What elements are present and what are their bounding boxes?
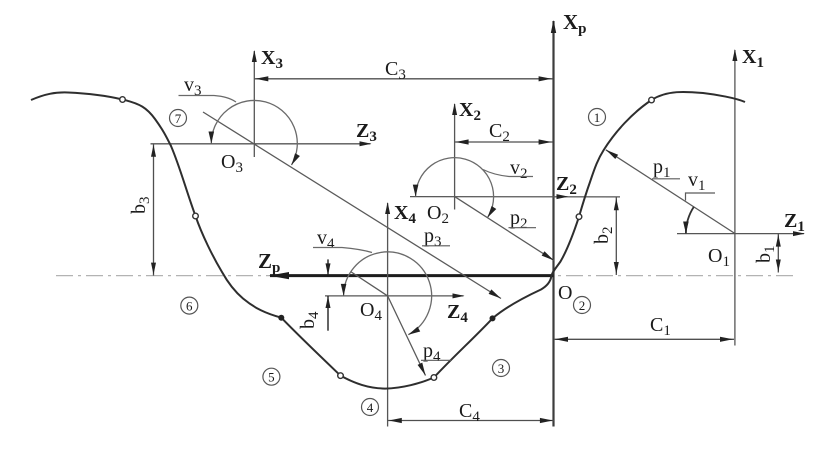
svg-text:6: 6: [186, 299, 193, 314]
segment number 6: [181, 297, 198, 314]
label v1 leader: [686, 169, 716, 201]
marker open point seg4-3: [431, 375, 437, 381]
svg-text:O4: O4: [360, 299, 382, 324]
label v4 leader: [313, 227, 372, 253]
label p2: [509, 207, 537, 232]
dimension b1: [776, 234, 781, 273]
svg-text:O3: O3: [221, 151, 243, 176]
axis Xp: [551, 20, 556, 427]
axis X1: [732, 49, 737, 346]
label p1: [652, 156, 680, 181]
segment number 2: [574, 297, 591, 314]
line p1: [604, 148, 735, 234]
svg-text:X2: X2: [459, 99, 481, 124]
marker open point seg2-1: [576, 214, 582, 220]
svg-text:C3: C3: [385, 58, 406, 83]
svg-text:v2: v2: [510, 157, 528, 182]
axis Z4: [325, 293, 465, 298]
dimension C1: [554, 337, 734, 342]
label p3: [422, 225, 450, 250]
svg-text:4: 4: [367, 400, 374, 415]
svg-text:O2: O2: [427, 202, 449, 227]
svg-text:Z1: Z1: [784, 210, 805, 235]
centerline Zp dash-dot: [56, 275, 797, 277]
segment number 7: [170, 110, 187, 127]
segment number 5: [263, 368, 280, 385]
marker filled point seg6-5: [278, 315, 284, 321]
marker open point seg7b: [193, 213, 199, 219]
dimension b4: [326, 259, 331, 330]
svg-text:b1: b1: [753, 246, 778, 264]
dimension C3: [254, 76, 552, 81]
axis X2: [452, 103, 457, 210]
label p4: [421, 340, 452, 365]
marker open point seg5-4: [338, 373, 344, 379]
line p4: [351, 272, 428, 377]
dimension b2: [614, 197, 619, 275]
line p2: [455, 197, 556, 263]
marker open point seg7: [120, 97, 126, 103]
axis Z3: [151, 141, 372, 146]
svg-text:X1: X1: [742, 46, 764, 71]
axis X3: [252, 50, 257, 157]
dimension b3: [151, 144, 156, 276]
svg-text:X3: X3: [261, 47, 283, 72]
profile curve: [31, 92, 745, 389]
svg-text:p4: p4: [423, 340, 441, 365]
segment number 3: [493, 360, 510, 377]
svg-text:5: 5: [268, 370, 275, 385]
svg-text:Zp: Zp: [258, 249, 280, 276]
svg-text:v4: v4: [317, 227, 335, 252]
svg-text:O1: O1: [708, 245, 730, 270]
svg-text:C2: C2: [489, 120, 510, 145]
svg-text:Z3: Z3: [356, 120, 377, 145]
axis Zp (thick): [269, 272, 554, 279]
dimension C2: [455, 139, 553, 144]
svg-text:C4: C4: [459, 400, 480, 425]
svg-text:X4: X4: [394, 202, 416, 227]
svg-text:v1: v1: [688, 169, 706, 194]
svg-text:b2: b2: [591, 227, 616, 245]
svg-text:b3: b3: [128, 197, 153, 215]
svg-text:C1: C1: [650, 314, 671, 339]
axis Z1: [677, 231, 805, 236]
svg-text:Z4: Z4: [447, 301, 468, 326]
svg-text:Z2: Z2: [556, 173, 577, 198]
svg-text:2: 2: [579, 298, 586, 313]
segment number 4: [362, 399, 379, 416]
line p3: [203, 112, 502, 301]
segment number 1: [589, 109, 606, 126]
axis Z2: [410, 194, 620, 199]
angle arc v3: [209, 100, 300, 166]
svg-text:7: 7: [175, 111, 182, 126]
label v2 leader: [483, 157, 533, 182]
marker open point seg1: [649, 97, 655, 103]
svg-text:3: 3: [498, 361, 505, 376]
svg-text:b4: b4: [297, 311, 322, 329]
label v3 leader: [179, 74, 237, 102]
svg-text:p1: p1: [653, 156, 671, 181]
angle arc v1: [683, 207, 694, 234]
svg-text:Xp: Xp: [563, 10, 587, 37]
angle arc v4: [341, 252, 432, 337]
svg-text:1: 1: [594, 110, 601, 125]
dimension C4: [388, 418, 554, 423]
axis X4: [385, 202, 390, 427]
angle arc v2: [413, 158, 497, 219]
svg-text:O: O: [558, 282, 572, 304]
marker filled point seg3-2: [490, 315, 496, 321]
